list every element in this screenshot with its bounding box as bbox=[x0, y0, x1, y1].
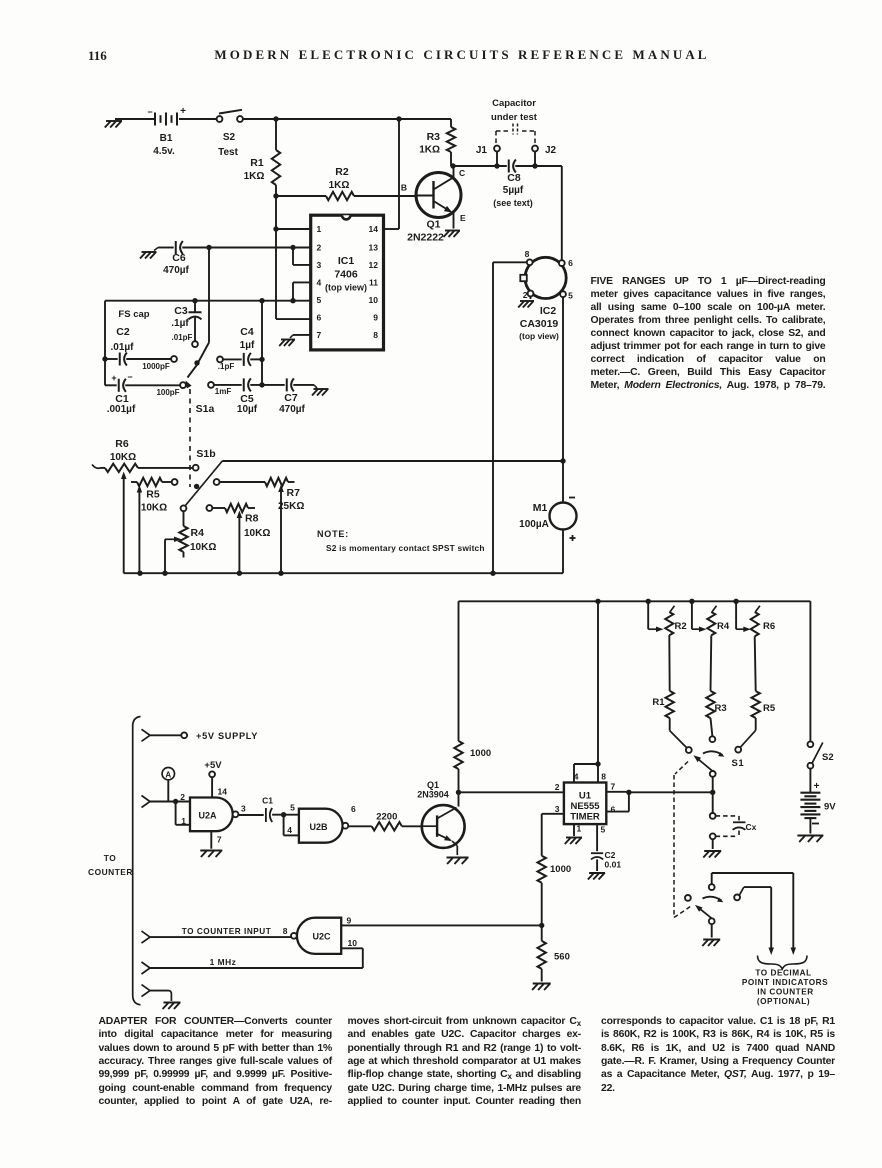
svg-text:U1: U1 bbox=[579, 791, 592, 802]
svg-text:1KΩ: 1KΩ bbox=[244, 171, 265, 182]
svg-text:2N3904: 2N3904 bbox=[417, 790, 449, 800]
svg-text:U2A: U2A bbox=[198, 810, 217, 820]
svg-text:12: 12 bbox=[369, 260, 379, 270]
svg-text:7: 7 bbox=[611, 782, 616, 792]
svg-text:7: 7 bbox=[217, 835, 222, 845]
svg-text:3: 3 bbox=[317, 260, 322, 270]
svg-text:13: 13 bbox=[369, 243, 379, 253]
svg-text:R1: R1 bbox=[652, 697, 665, 708]
svg-text:10KΩ: 10KΩ bbox=[190, 542, 216, 553]
svg-text:C1: C1 bbox=[262, 796, 273, 806]
svg-text:5: 5 bbox=[290, 803, 295, 813]
svg-text:U2C: U2C bbox=[312, 931, 331, 941]
svg-text:S2 is momentary contact SPST s: S2 is momentary contact SPST switch bbox=[326, 543, 485, 553]
svg-text:10KΩ: 10KΩ bbox=[141, 503, 167, 514]
svg-text:5: 5 bbox=[317, 295, 322, 305]
svg-text:3: 3 bbox=[241, 804, 246, 814]
svg-text:470µf: 470µf bbox=[163, 265, 189, 276]
svg-text:TO: TO bbox=[104, 853, 116, 863]
svg-text:NE555: NE555 bbox=[570, 801, 600, 812]
svg-text:25KΩ: 25KΩ bbox=[278, 501, 304, 512]
svg-text:Capacitor: Capacitor bbox=[492, 98, 536, 109]
svg-text:6: 6 bbox=[568, 258, 573, 268]
svg-text:1KΩ: 1KΩ bbox=[329, 180, 350, 191]
svg-text:C2: C2 bbox=[116, 326, 130, 338]
svg-text:14: 14 bbox=[369, 224, 379, 234]
svg-text:POINT INDICATORS: POINT INDICATORS bbox=[742, 978, 828, 987]
svg-text:+5V SUPPLY: +5V SUPPLY bbox=[196, 731, 258, 741]
svg-text:J1: J1 bbox=[476, 145, 488, 156]
svg-text:1000: 1000 bbox=[470, 748, 491, 759]
svg-text:10KΩ: 10KΩ bbox=[110, 452, 136, 463]
svg-text:COUNTER: COUNTER bbox=[88, 867, 133, 877]
svg-text:2: 2 bbox=[180, 792, 185, 802]
svg-text:3: 3 bbox=[555, 804, 560, 814]
svg-text:Test: Test bbox=[218, 147, 238, 158]
svg-text:6: 6 bbox=[611, 805, 616, 815]
svg-text:R8: R8 bbox=[245, 513, 259, 525]
svg-text:.1pF: .1pF bbox=[218, 362, 235, 371]
svg-text:Q1: Q1 bbox=[426, 219, 440, 231]
svg-text:4: 4 bbox=[317, 278, 322, 288]
svg-text:R3: R3 bbox=[715, 703, 727, 714]
svg-text:S1a: S1a bbox=[196, 403, 215, 415]
svg-text:.01µf: .01µf bbox=[111, 342, 135, 353]
svg-text:5µµf: 5µµf bbox=[503, 185, 524, 196]
svg-text:R6: R6 bbox=[115, 438, 129, 450]
svg-text:1µf: 1µf bbox=[240, 340, 255, 351]
svg-text:S2: S2 bbox=[822, 752, 834, 763]
svg-text:NOTE:: NOTE: bbox=[317, 529, 349, 539]
svg-text:TO DECIMAL: TO DECIMAL bbox=[755, 969, 811, 978]
svg-text:(OPTIONAL): (OPTIONAL) bbox=[757, 997, 810, 1006]
svg-text:CA3019: CA3019 bbox=[520, 318, 559, 330]
svg-text:2: 2 bbox=[523, 290, 528, 300]
svg-text:S2: S2 bbox=[223, 132, 236, 143]
svg-text:TO COUNTER INPUT: TO COUNTER INPUT bbox=[182, 927, 272, 936]
svg-text:R3: R3 bbox=[427, 131, 441, 143]
svg-text:+: + bbox=[111, 373, 116, 383]
svg-text:100pF: 100pF bbox=[156, 388, 179, 397]
svg-text:+5V: +5V bbox=[204, 760, 222, 771]
svg-text:R2: R2 bbox=[335, 166, 349, 178]
svg-text:1: 1 bbox=[317, 224, 322, 234]
svg-text:7406: 7406 bbox=[334, 269, 358, 281]
svg-text:1000pF: 1000pF bbox=[142, 362, 170, 371]
svg-text:100µA: 100µA bbox=[519, 519, 549, 530]
svg-text:1: 1 bbox=[577, 824, 582, 834]
svg-text:C3: C3 bbox=[174, 305, 188, 317]
svg-text:14: 14 bbox=[218, 787, 228, 797]
svg-text:+: + bbox=[180, 106, 186, 117]
svg-text:R2: R2 bbox=[675, 621, 687, 632]
svg-text:8: 8 bbox=[525, 249, 530, 259]
svg-text:11: 11 bbox=[369, 278, 378, 288]
svg-text:C6: C6 bbox=[172, 252, 186, 264]
svg-text:J2: J2 bbox=[545, 145, 557, 156]
svg-text:5: 5 bbox=[601, 825, 606, 835]
svg-text:8: 8 bbox=[601, 772, 606, 782]
svg-text:1000: 1000 bbox=[550, 864, 571, 875]
svg-text:C4: C4 bbox=[240, 326, 254, 338]
svg-text:S1b: S1b bbox=[196, 448, 215, 460]
svg-text:10KΩ: 10KΩ bbox=[244, 528, 270, 539]
svg-text:1 MHz: 1 MHz bbox=[210, 957, 237, 967]
svg-text:1mF: 1mF bbox=[215, 387, 232, 396]
svg-text:C7: C7 bbox=[284, 392, 298, 404]
svg-text:A: A bbox=[165, 770, 171, 779]
svg-text:4.5v.: 4.5v. bbox=[153, 146, 175, 157]
svg-text:FS cap: FS cap bbox=[118, 309, 149, 320]
svg-text:U2B: U2B bbox=[309, 822, 328, 832]
svg-text:B1: B1 bbox=[160, 133, 173, 144]
svg-text:9: 9 bbox=[347, 916, 352, 926]
svg-text:R4: R4 bbox=[191, 527, 205, 539]
svg-text:8: 8 bbox=[373, 330, 378, 340]
svg-text:R7: R7 bbox=[287, 487, 301, 499]
svg-text:Cx: Cx bbox=[746, 822, 757, 832]
svg-text:IC1: IC1 bbox=[338, 255, 355, 267]
svg-text:C8: C8 bbox=[507, 172, 521, 184]
svg-text:(top view): (top view) bbox=[325, 283, 367, 293]
svg-text:E: E bbox=[460, 213, 466, 223]
svg-text:1KΩ: 1KΩ bbox=[419, 145, 440, 156]
svg-text:R1: R1 bbox=[250, 157, 264, 169]
svg-text:560: 560 bbox=[554, 952, 570, 963]
svg-text:1: 1 bbox=[181, 816, 186, 826]
svg-text:4: 4 bbox=[574, 772, 579, 782]
svg-text:.01pF: .01pF bbox=[172, 333, 193, 342]
svg-text:R6: R6 bbox=[763, 621, 775, 632]
svg-text:B: B bbox=[401, 183, 407, 193]
svg-text:R5: R5 bbox=[763, 703, 776, 714]
svg-text:7: 7 bbox=[317, 330, 322, 340]
svg-text:Q1: Q1 bbox=[427, 780, 439, 790]
svg-text:470µf: 470µf bbox=[279, 404, 305, 415]
svg-text:−: − bbox=[127, 372, 132, 382]
svg-text:IN COUNTER: IN COUNTER bbox=[757, 988, 813, 997]
svg-text:M1: M1 bbox=[533, 502, 548, 514]
svg-text:.001µf: .001µf bbox=[107, 404, 136, 415]
svg-text:−: − bbox=[147, 107, 152, 117]
svg-text:10: 10 bbox=[369, 295, 379, 305]
svg-text:10µf: 10µf bbox=[237, 404, 258, 415]
svg-text:5: 5 bbox=[568, 291, 573, 301]
svg-text:8: 8 bbox=[283, 926, 288, 936]
svg-text:2: 2 bbox=[555, 782, 560, 792]
svg-text:S1: S1 bbox=[732, 758, 745, 769]
svg-text:2: 2 bbox=[317, 243, 322, 253]
svg-text:(see text): (see text) bbox=[493, 198, 533, 208]
svg-text:2N2222: 2N2222 bbox=[407, 232, 444, 244]
svg-text:6: 6 bbox=[317, 313, 322, 323]
svg-text:4: 4 bbox=[287, 825, 292, 835]
svg-text:(top view): (top view) bbox=[519, 331, 559, 341]
svg-text:R4: R4 bbox=[717, 621, 730, 632]
svg-text:9: 9 bbox=[373, 313, 378, 323]
svg-text:0.01: 0.01 bbox=[605, 860, 622, 870]
svg-text:IC2: IC2 bbox=[540, 305, 557, 317]
svg-text:C: C bbox=[459, 168, 465, 178]
svg-text:under test: under test bbox=[491, 112, 538, 123]
svg-text:R5: R5 bbox=[146, 489, 160, 501]
svg-text:6: 6 bbox=[351, 804, 356, 814]
svg-text:+: + bbox=[814, 781, 820, 792]
svg-text:.1µf: .1µf bbox=[171, 318, 189, 329]
svg-text:C2: C2 bbox=[605, 850, 616, 860]
svg-text:TIMER: TIMER bbox=[570, 812, 600, 823]
svg-text:9V: 9V bbox=[824, 802, 836, 813]
svg-text:10: 10 bbox=[348, 938, 358, 948]
